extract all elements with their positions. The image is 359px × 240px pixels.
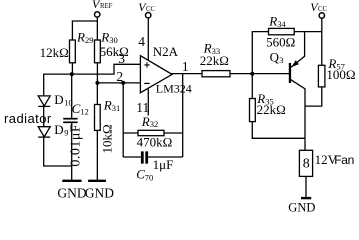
capacitor C70	[142, 151, 146, 163]
svg-text:560Ω: 560Ω	[266, 34, 295, 49]
wire R30 bottom to node B	[96, 63, 98, 83]
svg-text:LM324: LM324	[156, 82, 192, 96]
svg-text:Q: Q	[270, 49, 280, 64]
resistor R34	[269, 28, 295, 34]
label VREF	[92, 0, 113, 11]
resistor R35	[250, 99, 256, 122]
node dot Q3 base	[250, 72, 254, 76]
svg-text:GND: GND	[85, 186, 114, 201]
node dot feedback tap	[121, 81, 125, 85]
label D9	[54, 122, 68, 138]
GND3 symbol	[301, 197, 311, 199]
svg-text:34: 34	[277, 19, 286, 29]
svg-text:11: 11	[136, 100, 149, 115]
svg-text:3: 3	[279, 55, 283, 65]
svg-text:radiator: radiator	[4, 111, 52, 126]
svg-text:31: 31	[112, 103, 121, 113]
diode D10	[38, 96, 50, 107]
svg-text:3: 3	[118, 51, 125, 66]
svg-text:4: 4	[138, 34, 145, 49]
label C70	[136, 167, 153, 183]
svg-text:GND: GND	[288, 201, 315, 214]
svg-text:22kΩ: 22kΩ	[200, 53, 229, 68]
label R31	[103, 98, 121, 113]
svg-text:29: 29	[85, 35, 94, 45]
svg-text:D: D	[54, 122, 63, 137]
node dot B (R30/R31 junction)	[95, 81, 99, 85]
wire D10 cathode to D9 anode	[43, 106, 45, 127]
wire C70 feedback line	[123, 156, 183, 158]
svg-text:470kΩ: 470kΩ	[137, 135, 173, 150]
wire node B line to op-amp pin 2	[97, 82, 140, 84]
label VCC left	[138, 0, 155, 14]
svg-text:2: 2	[116, 69, 123, 84]
transistor Q3 bar	[289, 63, 291, 83]
svg-text:70: 70	[145, 172, 154, 182]
fan connector box pin 8	[299, 150, 312, 176]
svg-text:REF: REF	[100, 3, 113, 10]
svg-text:1: 1	[182, 59, 189, 74]
wire node B to feedback left rail	[122, 83, 124, 157]
svg-text:CC: CC	[318, 6, 328, 13]
label R33	[203, 40, 221, 55]
wire op-amp output to Q3 base	[172, 73, 290, 75]
svg-text:100Ω: 100Ω	[326, 67, 355, 82]
wire node B to R31 top	[96, 83, 98, 105]
wire op-amp pin 11 down	[147, 85, 149, 115]
label D10	[54, 92, 72, 108]
wire base node up and R34 line to VCC rail	[252, 32, 322, 74]
resistor R29	[70, 40, 76, 63]
svg-text:Fan: Fan	[334, 153, 354, 167]
svg-text:R: R	[100, 30, 109, 45]
svg-text:D: D	[54, 92, 63, 107]
wire VREF terminal to R30 top	[96, 17, 98, 40]
op-amp minus input mark	[144, 82, 149, 84]
terminal VCC left	[146, 13, 151, 18]
wire fan to GND3	[305, 176, 307, 197]
label 12VFan	[315, 152, 354, 167]
wire D9 cathode to GND1 branch	[44, 137, 72, 166]
wire R32 feedback line	[123, 132, 183, 134]
wire VCC right terminal to R57	[321, 18, 323, 65]
transistor Q3 emitter arrowhead	[292, 60, 299, 67]
svg-text:0.01μF: 0.01μF	[69, 124, 84, 167]
GND1 symbol	[62, 180, 81, 182]
resistor R31	[95, 105, 101, 131]
label VCC right	[310, 0, 327, 14]
wire node A to C12 top plate	[71, 74, 73, 118]
resistor R30	[95, 40, 101, 63]
wire R31 bottom to GND2	[96, 130, 98, 180]
wire Q3 collector down to fan	[291, 80, 305, 151]
svg-text:12: 12	[80, 107, 89, 117]
label R34	[268, 14, 286, 29]
capacitor C12	[63, 119, 77, 123]
GND2 symbol	[88, 180, 106, 182]
label R35	[256, 91, 274, 106]
wire Q3 emitter to VCC line	[291, 32, 305, 68]
resistor R33	[202, 71, 230, 77]
wire branch VREF to R29 top	[72, 21, 97, 41]
label R32	[141, 114, 159, 129]
svg-text:22kΩ: 22kΩ	[257, 102, 286, 117]
wire base node to R35 top	[251, 74, 253, 99]
terminal VREF	[95, 12, 100, 17]
wire node A line to op-amp pin 3	[44, 64, 141, 96]
resistor R57	[318, 65, 325, 87]
terminal VCC right	[319, 13, 324, 18]
op-amp plus input mark	[144, 62, 149, 67]
svg-text:10kΩ: 10kΩ	[100, 124, 115, 153]
wire R29 bottom to node A	[71, 63, 73, 75]
label R57	[327, 56, 345, 71]
svg-text:12kΩ: 12kΩ	[40, 45, 69, 60]
label R30	[100, 30, 118, 45]
svg-text:R: R	[103, 98, 112, 113]
diode D9	[38, 127, 50, 137]
svg-text:N2A: N2A	[153, 44, 179, 59]
svg-text:R: R	[141, 114, 150, 129]
svg-text:CC: CC	[146, 6, 156, 13]
wire C12 bottom plate to GND1	[71, 123, 73, 180]
svg-text:1μF: 1μF	[153, 157, 174, 172]
wire output to feedback right rail	[182, 74, 184, 157]
resistor R32	[138, 130, 164, 135]
label R29	[76, 30, 94, 45]
label Q3	[270, 49, 284, 65]
svg-text:R: R	[76, 30, 85, 45]
svg-text:GND: GND	[57, 186, 86, 201]
wire R57 bottom to collector rail	[305, 87, 322, 106]
node dot A (R29/C12 junction)	[70, 72, 74, 76]
op-amp U1 triangle	[140, 56, 172, 93]
svg-text:8: 8	[303, 157, 310, 172]
wire op-amp pin 4 from VCC terminal	[147, 18, 149, 61]
wire R35 bottom to fan rail	[252, 122, 305, 139]
svg-text:R: R	[268, 14, 277, 29]
label C12	[72, 101, 89, 117]
svg-text:32: 32	[150, 119, 159, 129]
